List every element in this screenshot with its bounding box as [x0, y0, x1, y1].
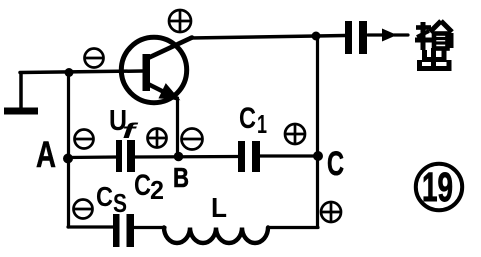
svg-text:C: C [134, 169, 151, 202]
wire: output arrow [368, 33, 408, 36]
capacitor C1 [238, 141, 260, 172]
ground [4, 73, 38, 115]
capacitor (output coupling) [345, 21, 367, 54]
transistor Q1 [121, 37, 192, 102]
capacitor Cs [113, 214, 134, 247]
svg-text:C: C [327, 145, 344, 183]
polarity marker minus (node A side) [75, 130, 94, 149]
polarity marker plus (right of C2) [148, 129, 167, 148]
node A [63, 154, 73, 164]
label: output (Chinese 输出) [415, 21, 452, 70]
svg-text:f: f [122, 120, 139, 143]
wire: inductor to right branch [268, 226, 318, 229]
polarity marker plus (above node C) [285, 124, 305, 144]
polarity marker plus (collector) [169, 10, 191, 32]
wire: right vertical branch [316, 36, 319, 227]
inductor L [164, 228, 268, 243]
svg-text:L: L [211, 192, 227, 223]
junction: top rail / right branch [312, 32, 321, 41]
polarity marker minus (base) [85, 49, 104, 68]
wire: bottom rail left [68, 225, 113, 228]
svg-text:B: B [173, 162, 189, 193]
wire: top rail to output capacitor [316, 34, 345, 38]
figure number 19 [416, 164, 462, 210]
wire: emitter to node B [176, 98, 179, 157]
polarity marker plus (bottom right) [321, 202, 341, 222]
wire: left vertical branch [67, 72, 70, 227]
node C [313, 151, 323, 161]
输 char [416, 25, 431, 30]
svg-text:C: C [239, 102, 256, 135]
node B [174, 152, 184, 162]
polarity marker minus (right of emitter) [182, 129, 203, 150]
svg-text:2: 2 [150, 175, 164, 205]
wire: Cs to inductor [134, 226, 165, 229]
svg-text:C: C [96, 181, 113, 212]
wire: collector to top rail [190, 36, 316, 38]
wire: C1 to node C [260, 154, 317, 157]
label Uf [109, 105, 139, 143]
svg-text:19: 19 [422, 164, 453, 210]
polarity marker minus (Cs) [74, 200, 93, 219]
wire: middle A to C2 [68, 155, 117, 159]
出 char [431, 48, 436, 70]
svg-text:A: A [36, 134, 56, 175]
junction: base/left branch [65, 68, 74, 77]
svg-text:1: 1 [257, 109, 267, 139]
wire: base wire from ground to transistor [20, 71, 143, 73]
wire: C2 to node B [135, 155, 238, 159]
svg-text:S: S [113, 188, 127, 218]
capacitor C2 [116, 140, 135, 172]
